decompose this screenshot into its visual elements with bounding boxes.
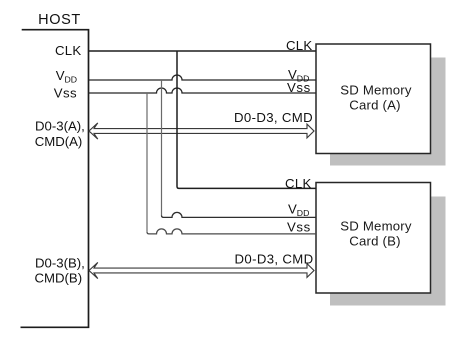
wire VDD host to card A (hop over CLK drop) (89, 75, 317, 80)
wire VDD to card B (hop at x177) (162, 212, 317, 217)
svg-text:D0-D3, CMD: D0-D3, CMD (234, 110, 313, 125)
svg-text:SD Memory: SD Memory (340, 219, 412, 234)
SD Memory Card (B) box (316, 183, 431, 294)
svg-text:CLK: CLK (286, 38, 313, 53)
svg-text:CMD(A): CMD(A) (35, 134, 83, 149)
svg-text:D0-3(A),: D0-3(A), (35, 118, 85, 133)
host bus label D0-3(B), CMD(B) (35, 255, 85, 285)
wire VSS host to card A (hops over VDD and CLK drops) (89, 88, 317, 93)
svg-text:CLK: CLK (55, 43, 82, 58)
svg-text:D0-3(B),: D0-3(B), (35, 255, 85, 270)
svg-text:Card (B): Card (B) (349, 233, 400, 248)
wire VSS drop (146, 93, 148, 232)
svg-text:CMD(B): CMD(B) (35, 270, 83, 285)
wire CLK host to card A (89, 50, 317, 52)
svg-text:Card (A): Card (A) (349, 97, 400, 112)
card B label (340, 219, 412, 249)
card A shadow (330, 58, 446, 166)
wire VSS to card B (hops at x161.5 and x177) (147, 229, 316, 234)
svg-text:Vss: Vss (54, 86, 77, 101)
svg-text:Vss: Vss (287, 219, 311, 234)
svg-text:D0-D3, CMD: D0-D3, CMD (235, 251, 314, 266)
svg-text:CLK: CLK (285, 176, 312, 191)
SD Memory Card (A) box (316, 44, 431, 154)
wire CLK drop to card B (177, 51, 316, 188)
svg-text:HOST: HOST (38, 12, 81, 28)
wire VDD drop (161, 80, 163, 215)
card A label (340, 83, 412, 113)
host bus label D0-3(A), CMD(A) (35, 118, 85, 149)
data bus arrow B (double-headed outline) (89, 262, 314, 278)
svg-text:Vss: Vss (287, 80, 311, 95)
HOST box outline (open on left) (21, 30, 89, 328)
card B shadow (330, 197, 446, 306)
svg-text:SD Memory: SD Memory (340, 83, 412, 98)
data bus arrow A (double-headed outline) (89, 123, 314, 139)
